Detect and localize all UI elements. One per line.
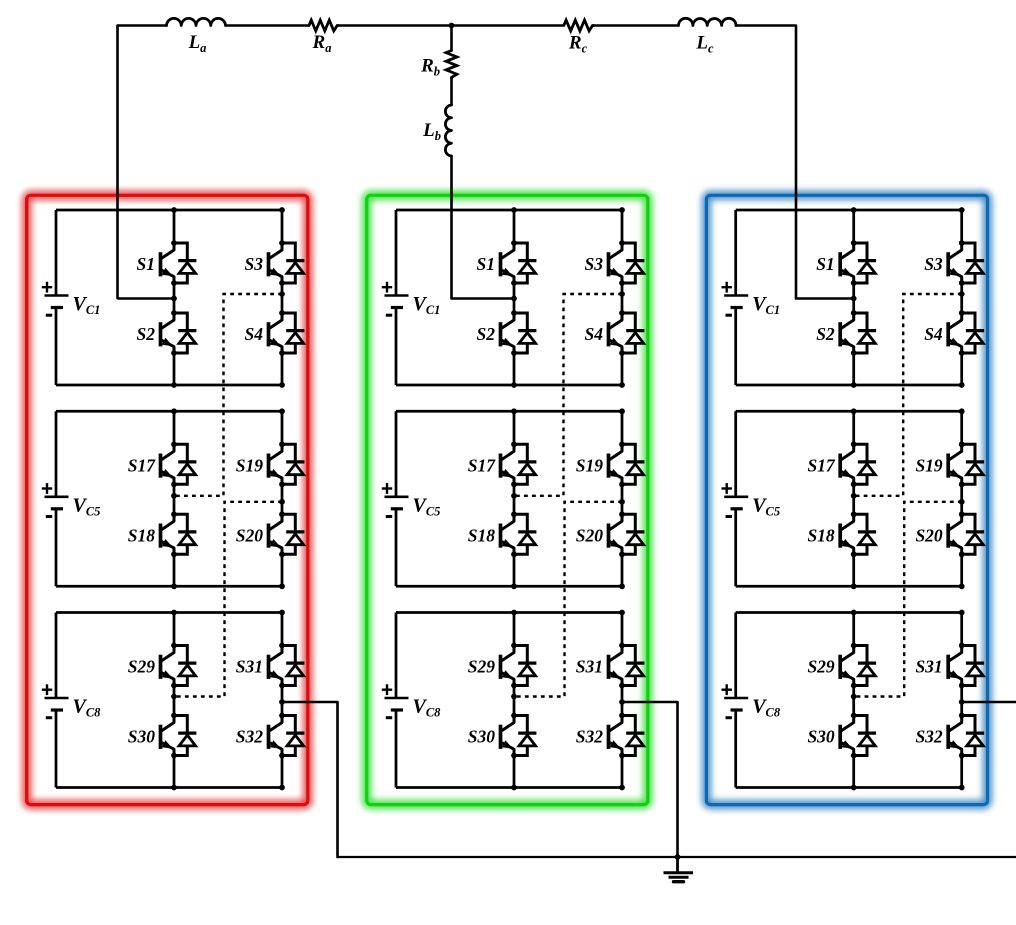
junction top bus / left leg [851, 207, 857, 213]
wire left leg middle [173, 283, 176, 313]
svg-text:S18: S18 [128, 525, 155, 545]
wire right leg bottom [960, 353, 963, 385]
junction top bus / left leg [171, 408, 177, 414]
phase b highlight box [367, 195, 648, 804]
node phase b input junction (S1/S2 midpoint) [511, 296, 517, 302]
junction star point [675, 854, 681, 860]
wire right leg bottom [621, 756, 624, 788]
wire left leg middle [513, 686, 516, 716]
svg-text:S4: S4 [924, 324, 943, 344]
wire phase b output to star point [622, 702, 678, 857]
junction top bus / right leg [959, 610, 965, 616]
wire left wall upper [55, 613, 58, 699]
node b junction [449, 23, 455, 29]
wire left wall upper [734, 210, 737, 296]
wire left wall lower [734, 308, 737, 386]
svg-text:S29: S29 [468, 657, 495, 677]
wire right leg bottom [960, 554, 963, 586]
wire left leg middle [513, 484, 516, 514]
wire Ra to node b [338, 24, 451, 26]
wire left wall lower [55, 710, 58, 788]
wire bottom bus [396, 585, 622, 588]
wire top bus [396, 209, 622, 212]
phase b module group [382, 207, 645, 790]
wire Rc to Lc [594, 24, 679, 26]
svg-text:S29: S29 [807, 657, 834, 677]
capacitor VC5 [42, 483, 101, 518]
junction top bus / right leg [619, 207, 625, 213]
node phase c input junction (S1/S2 midpoint) [851, 296, 857, 302]
wire right leg middle [281, 283, 284, 313]
inductor Lc [679, 18, 737, 55]
transistor S30 [840, 713, 876, 759]
wire right leg top [621, 411, 624, 444]
wire left leg middle [173, 484, 176, 514]
junction top bus / left leg [851, 408, 857, 414]
wire La to Ra [226, 24, 310, 27]
wire right leg middle [621, 484, 624, 514]
svg-text:S4: S4 [585, 324, 604, 344]
resistor Rb [420, 51, 457, 79]
junction bottom bus / right leg [959, 785, 965, 791]
transistor S17 [161, 441, 197, 487]
svg-text:S32: S32 [576, 727, 603, 747]
svg-text:S20: S20 [915, 525, 942, 545]
junction top bus / right leg [619, 408, 625, 414]
H-bridge cell 3 phase c [722, 610, 985, 791]
phase c module group [722, 207, 985, 790]
transistor S31 [609, 643, 645, 689]
wire left leg bottom [513, 353, 516, 385]
transistor S29 [840, 643, 876, 689]
capacitor VC8 [722, 684, 781, 719]
svg-text:S2: S2 [137, 324, 156, 344]
svg-text:S19: S19 [236, 455, 263, 475]
wire top bus [736, 611, 962, 614]
wire bottom bus [736, 585, 962, 588]
wire left wall lower [395, 509, 398, 587]
transistor S32 [948, 713, 984, 759]
wire right leg middle [960, 484, 963, 514]
junction top bus / left leg [511, 610, 517, 616]
H-bridge cell 3 phase a [42, 610, 305, 791]
junction bottom bus / right leg [279, 583, 285, 589]
wire top bus [56, 209, 282, 212]
wire top-left vertical (phase a feed) [118, 26, 167, 299]
transistor S20 [269, 511, 305, 557]
capacitor VC5 [722, 483, 781, 518]
junction top bus / right leg [279, 207, 285, 213]
wire left wall lower [734, 509, 737, 587]
svg-text:S2: S2 [477, 324, 496, 344]
wire left leg bottom [513, 554, 516, 586]
wire left leg bottom [173, 756, 176, 788]
svg-text:S30: S30 [468, 727, 495, 747]
junction top bus / right leg [959, 408, 965, 414]
wire top bus [396, 611, 622, 614]
wire right leg top [281, 210, 284, 243]
wire neutral bus [338, 856, 1016, 858]
svg-text:S32: S32 [236, 727, 263, 747]
transistor S4 [269, 310, 305, 356]
capacitor VC8 [42, 684, 101, 719]
transistor S3 [948, 240, 984, 286]
wire left leg middle [852, 686, 855, 716]
wire right leg middle [960, 686, 963, 716]
svg-text:S3: S3 [924, 254, 943, 274]
svg-text:S32: S32 [915, 727, 942, 747]
transistor S30 [501, 713, 537, 759]
svg-text:S1: S1 [137, 254, 155, 274]
node phase b output junction (S31/S32 midpoint) [619, 699, 625, 705]
capacitor VC1 [382, 282, 441, 317]
junction top bus / left leg [511, 207, 517, 213]
wire left leg top [173, 613, 176, 646]
junction bottom bus / left leg [171, 583, 177, 589]
junction top bus / left leg [851, 610, 857, 616]
wire right leg middle [621, 283, 624, 313]
svg-text:S19: S19 [576, 455, 603, 475]
wire right leg top [960, 411, 963, 444]
wire left leg middle [852, 283, 855, 313]
wire left wall upper [395, 210, 398, 296]
wire left wall upper [734, 613, 737, 699]
transistor S20 [609, 511, 645, 557]
junction bottom bus / right leg [279, 785, 285, 791]
wire right leg middle [281, 686, 284, 716]
wire Rb to Lb [450, 79, 453, 106]
H-bridge cell 1 phase c [722, 207, 985, 388]
junction bottom bus / right leg [619, 382, 625, 388]
transistor S3 [269, 240, 305, 286]
svg-text:S18: S18 [468, 525, 495, 545]
junction bottom bus / right leg [279, 382, 285, 388]
wire top bus [736, 410, 962, 413]
inductor La [167, 18, 226, 55]
junction bottom bus / left leg [851, 583, 857, 589]
transistor S18 [840, 511, 876, 557]
capacitor VC8 [382, 684, 441, 719]
wire phase-a jog into S1/S2 midpoint [118, 297, 175, 300]
wire left wall upper [734, 411, 737, 497]
wire top bus [736, 209, 962, 212]
transistor S19 [269, 441, 305, 487]
wire Lb down to phase b input [452, 156, 515, 299]
wire node b down to Rb [450, 26, 453, 51]
transistor S1 [161, 240, 197, 286]
wire left wall lower [734, 710, 737, 788]
wire left leg bottom [513, 756, 516, 788]
wire right leg bottom [621, 554, 624, 586]
svg-text:S1: S1 [816, 254, 834, 274]
transistor S1 [840, 240, 876, 286]
wire bottom bus [56, 585, 282, 588]
resistor Rc [564, 20, 594, 55]
transistor S2 [501, 310, 537, 356]
dashed link cell1 right to cell2 left, phase a [171, 291, 285, 499]
transistor S4 [609, 310, 645, 356]
junction top bus / right leg [619, 610, 625, 616]
svg-text:S19: S19 [915, 455, 942, 475]
junction bottom bus / right leg [959, 583, 965, 589]
wire phase c output to right edge [962, 701, 1016, 704]
wire left leg top [173, 411, 176, 444]
wire left leg middle [513, 283, 516, 313]
transistor S29 [161, 643, 197, 689]
wire top-right vertical (phase c feed) [736, 26, 854, 299]
wire left leg top [852, 613, 855, 646]
wire left leg top [513, 210, 516, 243]
inductor Lb [422, 105, 451, 156]
junction bottom bus / left leg [511, 382, 517, 388]
junction bottom bus / left leg [511, 785, 517, 791]
transistor S2 [840, 310, 876, 356]
transistor S1 [501, 240, 537, 286]
wire left leg bottom [173, 554, 176, 586]
phase a highlight box [27, 195, 308, 804]
wire right leg top [621, 613, 624, 646]
H-bridge cell 2 phase a [42, 408, 305, 589]
dashed link cell1 right to cell2 left, phase c [851, 291, 965, 499]
wire left wall upper [55, 210, 58, 296]
svg-text:S3: S3 [245, 254, 264, 274]
wire left leg top [852, 210, 855, 243]
wire right leg top [281, 613, 284, 646]
wire left leg top [513, 411, 516, 444]
H-bridge cell 2 phase b [382, 408, 645, 589]
junction bottom bus / left leg [171, 382, 177, 388]
wire top bus [56, 611, 282, 614]
wire right leg bottom [281, 554, 284, 586]
transistor S3 [609, 240, 645, 286]
wire left wall lower [55, 308, 58, 386]
junction bottom bus / left leg [511, 583, 517, 589]
wire bottom bus [736, 384, 962, 387]
wire top bus [56, 410, 282, 413]
wire right leg top [621, 210, 624, 243]
wire left wall upper [395, 411, 398, 497]
capacitor VC1 [42, 282, 101, 317]
dashed link cell2 right to cell3 left, phase a [171, 499, 285, 699]
svg-text:S17: S17 [807, 455, 835, 475]
wire left wall upper [395, 613, 398, 699]
transistor S19 [948, 441, 984, 487]
junction top bus / right leg [279, 408, 285, 414]
wire right leg bottom [621, 353, 624, 385]
phase a module group [42, 207, 305, 790]
wire left wall lower [395, 308, 398, 386]
H-bridge cell 1 phase b [382, 207, 645, 388]
junction bottom bus / right leg [619, 583, 625, 589]
H-bridge cell 3 phase b [382, 610, 645, 791]
svg-text:S30: S30 [128, 727, 155, 747]
junction top bus / right leg [279, 610, 285, 616]
junction bottom bus / left leg [851, 382, 857, 388]
wire left leg bottom [852, 353, 855, 385]
wire right leg middle [281, 484, 284, 514]
svg-text:S29: S29 [128, 657, 155, 677]
svg-text:S3: S3 [585, 254, 604, 274]
wire left leg bottom [173, 353, 176, 385]
svg-text:S4: S4 [245, 324, 264, 344]
resistor Ra [309, 20, 338, 55]
transistor S18 [501, 511, 537, 557]
H-bridge cell 2 phase c [722, 408, 985, 589]
transistor S2 [161, 310, 197, 356]
junction bottom bus / right leg [619, 785, 625, 791]
wire bottom bus [396, 384, 622, 387]
wire right leg bottom [960, 756, 963, 788]
wire left wall lower [55, 509, 58, 587]
wire left leg top [513, 613, 516, 646]
junction bottom bus / left leg [171, 785, 177, 791]
wire left leg middle [852, 484, 855, 514]
transistor S17 [840, 441, 876, 487]
phase c highlight box [706, 195, 987, 804]
transistor S31 [269, 643, 305, 689]
wire right leg middle [960, 283, 963, 313]
svg-text:S30: S30 [807, 727, 834, 747]
capacitor VC1 [722, 282, 781, 317]
transistor S4 [948, 310, 984, 356]
transistor S29 [501, 643, 537, 689]
svg-text:S20: S20 [236, 525, 263, 545]
svg-text:S17: S17 [128, 455, 156, 475]
dashed link cell2 right to cell3 left, phase c [851, 499, 965, 699]
junction top bus / left leg [171, 610, 177, 616]
wire bottom bus [56, 384, 282, 387]
svg-text:S31: S31 [915, 657, 942, 677]
transistor S19 [609, 441, 645, 487]
svg-text:S1: S1 [477, 254, 495, 274]
wire left leg top [852, 411, 855, 444]
junction top bus / right leg [959, 207, 965, 213]
wire left leg middle [173, 686, 176, 716]
wire bottom bus [56, 786, 282, 789]
node phase a input junction (S1/S2 midpoint) [171, 296, 177, 302]
transistor S18 [161, 511, 197, 557]
transistor S17 [501, 441, 537, 487]
wire left leg bottom [852, 554, 855, 586]
wire phase a output to neutral bus [282, 702, 338, 857]
wire right leg bottom [281, 756, 284, 788]
capacitor VC5 [382, 483, 441, 518]
wire bottom bus [736, 786, 962, 789]
transistor S32 [609, 713, 645, 759]
wire right leg top [960, 210, 963, 243]
wire right leg top [960, 613, 963, 646]
junction bottom bus / left leg [851, 785, 857, 791]
transistor S30 [161, 713, 197, 759]
wire right leg top [281, 411, 284, 444]
wire right leg middle [621, 686, 624, 716]
transistor S20 [948, 511, 984, 557]
wire left wall upper [55, 411, 58, 497]
junction bottom bus / right leg [959, 382, 965, 388]
transistor S31 [948, 643, 984, 689]
dashed link cell2 right to cell3 left, phase b [511, 499, 625, 699]
node phase c output junction (S31/S32 midpoint) [959, 699, 965, 705]
wire node b to Rc [452, 24, 564, 26]
node phase a output junction (S31/S32 midpoint) [279, 699, 285, 705]
wire left wall lower [395, 710, 398, 788]
svg-text:S18: S18 [807, 525, 834, 545]
ground [664, 857, 694, 882]
svg-text:S2: S2 [816, 324, 835, 344]
wire left leg top [173, 210, 176, 243]
transistor S32 [269, 713, 305, 759]
wire bottom bus [396, 786, 622, 789]
svg-text:S31: S31 [236, 657, 263, 677]
junction top bus / left leg [511, 408, 517, 414]
svg-text:S31: S31 [576, 657, 603, 677]
dashed link cell1 right to cell2 left, phase b [511, 291, 625, 499]
wire right leg bottom [281, 353, 284, 385]
svg-text:S17: S17 [468, 455, 496, 475]
junction top bus / left leg [171, 207, 177, 213]
wire left leg bottom [852, 756, 855, 788]
H-bridge cell 1 phase a [42, 207, 305, 388]
wire top bus [396, 410, 622, 413]
svg-text:S20: S20 [576, 525, 603, 545]
